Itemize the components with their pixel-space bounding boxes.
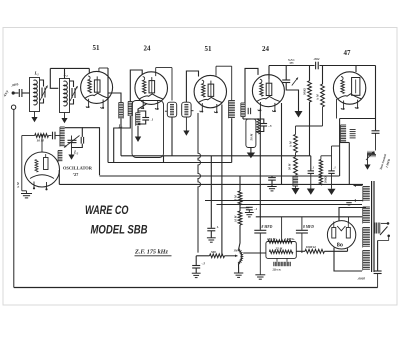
wire IF2 pri top [171, 68, 173, 101]
wire L2 top to C2 [70, 81, 74, 87]
svg-text:WARE CO: WARE CO [85, 203, 129, 217]
coil osc primary [60, 126, 65, 128]
wire L5/C5 loop top [138, 111, 146, 118]
tube V4 '24 2nd detector [252, 75, 284, 107]
ground L2 [64, 113, 66, 119]
wire V2 plate riser [155, 68, 157, 77]
capacitor .5 af [195, 256, 197, 265]
ground terminal [11, 105, 15, 109]
capacitor .005 [282, 79, 290, 81]
trimmer tick IF2 pri [165, 110, 167, 112]
resistor .5M [239, 176, 241, 191]
tube V1 pins [86, 99, 89, 108]
resistor 130M [268, 240, 292, 243]
wire tone cap down [375, 133, 377, 150]
wire V1 plate riser [98, 68, 100, 72]
svg-text:.0005: .0005 [358, 277, 366, 281]
svg-text:51: 51 [205, 45, 213, 53]
wire IF1 sec bottom [114, 116, 131, 163]
coil L1 winding [34, 80, 38, 105]
wire pot top lead [239, 225, 241, 250]
svg-text:130 M: 130 M [267, 237, 276, 241]
wire L2 to grid riser [64, 68, 66, 78]
svg-text:25 M: 25 M [275, 246, 283, 250]
wire V6 grid riser [41, 136, 43, 153]
svg-text:24: 24 [262, 45, 270, 53]
wire IF3 sec bottom [242, 117, 244, 119]
wire V4 cathode drop [281, 103, 283, 184]
tube V3 '51 IF amp [194, 75, 226, 107]
svg-text:500Ω: 500Ω [324, 176, 328, 183]
capacitor .1 af left [308, 170, 314, 172]
wire B+ right drop [375, 66, 377, 131]
ground speaker [345, 200, 353, 202]
svg-text:¼ M: ¼ M [289, 141, 293, 147]
ground IF2 secondary [185, 117, 187, 131]
arrow C1 variable [40, 86, 48, 101]
svg-text:50 M: 50 M [288, 163, 292, 170]
shield can IF2 primary [167, 102, 176, 117]
svg-text:-.1: -.1 [254, 207, 258, 211]
wire V3 heater drop [221, 105, 223, 256]
wire L2 return [50, 68, 58, 88]
wire C1 to L1 bottom [40, 99, 44, 104]
coil osc tickler [58, 150, 62, 152]
wire IF3 pri bottom [231, 118, 233, 162]
wire line cap to bus [377, 274, 379, 288]
ground .5 af [192, 272, 201, 274]
wire shield box to bus [163, 156, 165, 163]
svg-text:50 M: 50 M [249, 134, 253, 141]
resistor wirewound [273, 262, 275, 266]
arrow volume wiper [225, 255, 238, 257]
coil L2 box [60, 79, 70, 113]
wire bus B horizontal [108, 162, 232, 164]
resistor 25M [269, 250, 293, 253]
transformer core [371, 181, 373, 272]
coil L1 box [30, 78, 40, 112]
wire 1000ohm to V7 [324, 250, 347, 252]
wire interstage top [340, 118, 376, 120]
svg-text:.004: .004 [314, 57, 320, 61]
wire ww stubs [276, 258, 278, 261]
variable capacitor osc C3 [68, 139, 77, 141]
svg-text:1.: 1. [217, 225, 220, 229]
svg-text:.5 M: .5 M [233, 195, 237, 201]
svg-text:47: 47 [344, 49, 352, 57]
transformer power winding 3 [363, 250, 370, 252]
ground .1 avc [267, 186, 276, 188]
transformer power winding 1 [363, 206, 370, 208]
capacitor 8MFD second [301, 217, 303, 230]
wire osc grid leak [21, 136, 23, 191]
svg-text:500: 500 [211, 250, 216, 254]
wire IF3 sec top to V4 grid [245, 68, 258, 103]
node plug terminal 1 [387, 222, 390, 225]
tube V4 pins [258, 102, 261, 111]
wire switch drop [388, 237, 390, 241]
wire V3 cathode drop with hops [198, 113, 201, 253]
transformer power primary [374, 223, 376, 234]
wire heater bus 2 [217, 204, 363, 206]
ground tone control [367, 154, 369, 165]
wire B+ top bus [269, 65, 315, 67]
wire IF2 pri bottom [171, 117, 173, 156]
wire osc to bus A [82, 128, 99, 176]
wire V4 plate riser [268, 66, 270, 80]
resistor divider tail [293, 175, 298, 177]
wire padder bottom [72, 144, 83, 148]
transformer output primary [363, 186, 370, 188]
coil IF3 primary [229, 100, 235, 102]
svg-text:Z.F. 175 kHz: Z.F. 175 kHz [134, 249, 168, 256]
resistor divider lower [295, 153, 297, 157]
ground .1 af right [331, 174, 333, 189]
capacitor .1 chain [240, 207, 249, 209]
ground osc tank [71, 143, 73, 155]
resistor leak inner [257, 119, 260, 135]
wire IF1 pri bottom [120, 118, 122, 155]
capacitor IF3 trimmer [247, 108, 249, 114]
wire leak loop bottom [256, 126, 264, 132]
arrow speaker top [354, 185, 363, 187]
switch power [381, 222, 387, 224]
wire interstage left [339, 119, 341, 143]
wire ground-terminal lead left [13, 109, 15, 287]
coil interstage primary [341, 124, 347, 126]
svg-text:-.5: -.5 [268, 124, 272, 128]
coil L2 winding [64, 81, 68, 106]
wire bus C horizontal [121, 155, 311, 157]
tube V2 pins [141, 100, 144, 109]
coil L5 cathode [136, 112, 141, 114]
wire bus corner B [107, 93, 109, 163]
wire L1 top to C1 [40, 80, 44, 87]
ground grid leak [250, 148, 252, 153]
svg-text:1000 Ω: 1000 Ω [306, 245, 317, 249]
ground detector plate RC [295, 111, 303, 118]
ground divider [295, 186, 297, 188]
capacitor grid leak .5 [261, 123, 268, 125]
capacitor .1 af right [331, 146, 333, 171]
choke 500 ohm af [320, 156, 322, 160]
tube V3 pins [200, 103, 203, 112]
resistor 1000 ohm [305, 249, 324, 253]
wire drop to .005 cap [285, 66, 287, 80]
wire ant cap to L1 [22, 92, 29, 94]
wire heater bus 1 [205, 200, 362, 202]
coil IF1 primary [119, 102, 124, 104]
wire V2 cathode to L5 [138, 104, 147, 113]
wire pot to box [243, 252, 266, 254]
wire af to box [332, 145, 341, 147]
underline ZF [135, 255, 172, 257]
wire interstage bottom [340, 142, 350, 144]
capacitor osc padder [80, 137, 82, 144]
wire divider feed [296, 125, 323, 127]
svg-text:OSCILLATOR: OSCILLATOR [63, 166, 93, 171]
capacitor osc grid [52, 132, 54, 140]
wire V7 plate feed left [339, 208, 366, 221]
shield can IF2 secondary [182, 102, 191, 117]
capacitor .1 avc [271, 176, 273, 177]
wire V5 grid drop [336, 99, 338, 119]
wire L5/C5 loop bottom [138, 120, 146, 124]
wire V4 cathode to filter [259, 109, 261, 217]
resistor network box [266, 242, 296, 259]
wire IF1 sec top to V2 grid [130, 70, 142, 102]
svg-text:1 MEG.: 1 MEG. [285, 237, 296, 241]
svg-text:¼ M: ¼ M [315, 94, 319, 100]
resistor 500 ohm screen [309, 66, 311, 81]
wire osc cap to coil [55, 135, 60, 137]
tube V2 '24 1st detector [135, 72, 168, 105]
resistor quarter M [322, 66, 324, 85]
svg-text:10 M: 10 M [233, 215, 237, 222]
coil IF1 secondary [128, 101, 132, 103]
svg-text:51: 51 [93, 44, 101, 52]
wire V1 grid riser [88, 68, 90, 73]
wire B- bottom bus [14, 287, 378, 289]
capacitor C5 [142, 117, 149, 119]
tube V7 '80 rectifier [327, 221, 355, 249]
wire grid bus tube1 [50, 67, 89, 69]
wire filter bus [256, 216, 362, 218]
svg-text:.1: .1 [151, 118, 154, 122]
wire leak loop top [251, 119, 264, 124]
wire C3 feed [71, 136, 73, 141]
tube V5 '47 output [333, 72, 365, 104]
wire V5 plate riser [355, 66, 357, 73]
wire bus AVC A horizontal [100, 175, 340, 177]
wire V3 plate riser [215, 66, 217, 76]
capacitor .0005 antenna [18, 89, 20, 97]
tube V1 '51 RF [81, 71, 113, 103]
ground volume [234, 272, 243, 274]
svg-text:L₂: L₂ [63, 72, 69, 77]
arrow C2 variable [70, 86, 78, 101]
resistor divider upper [295, 126, 297, 134]
ground oscillator [21, 193, 32, 195]
wire interstage drop 2 [348, 143, 350, 185]
resistor tone control [368, 152, 376, 156]
coil IF2 primary [170, 104, 174, 106]
capacitor tone 1MFD [372, 130, 380, 132]
wire V1 plate to IF1 [108, 68, 121, 103]
potentiometer volume arc [239, 250, 242, 264]
svg-text:’27: ’27 [73, 172, 80, 177]
ground 1. bypass [207, 237, 216, 239]
capacitor .0005 line [374, 270, 382, 272]
wire .005 to ground arrow [286, 83, 298, 111]
svg-text:MODEL SBB: MODEL SBB [91, 223, 148, 237]
wire osc tank top [65, 128, 83, 137]
coil interstage secondary [350, 129, 356, 131]
arrow tone [366, 152, 374, 161]
wire V7 filament left [334, 248, 362, 272]
ground L5 [137, 126, 139, 137]
arrow trimmer [292, 78, 298, 86]
svg-text:10 M: 10 M [37, 139, 45, 143]
resistor 500 feed [210, 254, 225, 258]
wire osc cathode return [22, 190, 27, 192]
tube V6 '27 oscillator [25, 152, 60, 187]
wire IF3 pri top [231, 66, 233, 100]
arrow speaker bottom [354, 200, 363, 202]
svg-text:L₃: L₃ [73, 150, 79, 155]
wire box feed [281, 217, 283, 242]
wire box to 1000ohm [296, 250, 305, 252]
wire C2 to L2 bottom [70, 99, 74, 104]
ground L1 [34, 112, 36, 118]
capacitor .004 coupling [315, 62, 317, 70]
svg-text:8o: 8o [337, 242, 343, 249]
resistor 10M chain [239, 205, 241, 211]
arrow C3 variable [64, 136, 80, 148]
wire volume feed [196, 255, 209, 257]
svg-text:8 MFD: 8 MFD [303, 225, 314, 229]
svg-text:1M: 1M [234, 249, 238, 253]
transformer power winding 2 [363, 227, 370, 229]
variable capacitor C1 [41, 88, 43, 98]
resistor 10M [22, 135, 35, 137]
coil IF3 secondary [241, 102, 245, 104]
resistor 50M grid leak box [246, 119, 256, 148]
tube V5 pins [341, 101, 344, 110]
svg-text:500Ω: 500Ω [303, 88, 307, 96]
wire V7 plate feed right [348, 217, 350, 223]
trimmer tick IF2 sec [191, 110, 193, 112]
svg-text:8 MFD: 8 MFD [262, 225, 273, 229]
capacitor 8MFD first [259, 217, 261, 230]
wire af node [310, 156, 312, 171]
ground 8MFD first [255, 274, 265, 276]
wire interstage drop 1 [339, 143, 341, 177]
shield box 1st det [132, 101, 164, 158]
tube V6 pins [33, 182, 35, 188]
node plug terminal 2 [387, 235, 390, 238]
svg-text:L₁: L₁ [34, 71, 40, 76]
ground .1 af left [310, 174, 312, 189]
wire pot bottom lead [238, 263, 240, 273]
coil IF2 secondary [184, 104, 188, 106]
wire bus D osc [58, 170, 60, 184]
capacitor 1. bypass [210, 156, 212, 228]
wire IF2 sec top to V3 grid [186, 71, 198, 102]
node antenna terminal [12, 91, 15, 94]
svg-text:¼ M: ¼ M [16, 182, 20, 188]
svg-text:-.5: -.5 [202, 262, 206, 266]
svg-text:2Ω w.w.: 2Ω w.w. [272, 269, 282, 272]
svg-text:24: 24 [144, 45, 152, 53]
variable capacitor C2 [71, 88, 73, 98]
ground .1 chain [245, 212, 254, 214]
